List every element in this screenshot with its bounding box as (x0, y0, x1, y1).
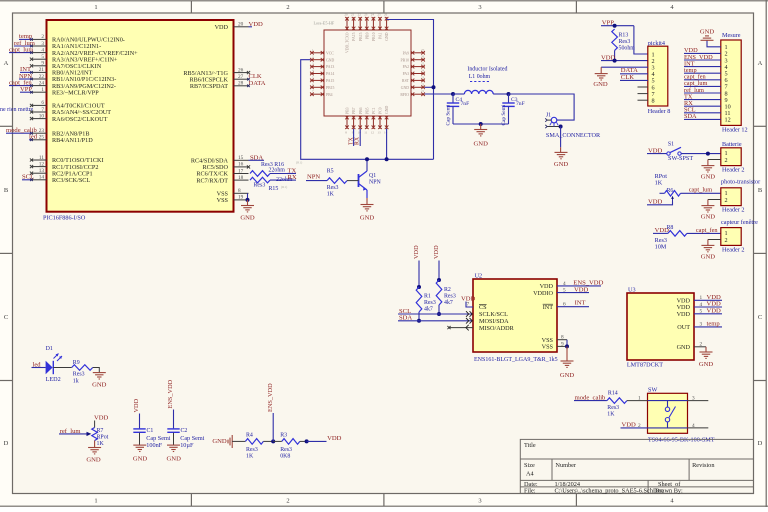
svg-text:R7: R7 (97, 428, 104, 434)
resistor R1 4k7 (416, 287, 422, 312)
svg-text:13: 13 (39, 168, 45, 174)
wire R13 to VDD rail (614, 50, 616, 60)
svg-text:LED2: LED2 (46, 376, 61, 383)
svg-text:23: 23 (364, 13, 368, 17)
svg-text:1: 1 (94, 4, 97, 11)
wire module top GND to right rail (387, 20, 434, 160)
svg-text:Cap Semi: Cap Semi (501, 104, 507, 125)
svg-text:R2: R2 (444, 287, 451, 293)
svg-text:PA15: PA15 (352, 32, 356, 40)
svg-text:Header 12: Header 12 (722, 127, 748, 134)
PIC pin 26 RB5/AN13/~T1G (234, 72, 249, 74)
svg-text:Drawn By:: Drawn By: (655, 488, 683, 495)
net stub TX from module bottom (353, 129, 355, 146)
wire / net label ref_lum to Mesure pin 8 (684, 92, 721, 94)
svg-text:11: 11 (364, 131, 367, 135)
svg-text:10M: 10M (655, 244, 667, 251)
PIC pin 20 VDD (234, 26, 249, 28)
svg-text:DATA: DATA (621, 67, 638, 74)
svg-text:PA2: PA2 (403, 65, 410, 69)
svg-text:22: 22 (358, 13, 362, 17)
svg-text:R14: R14 (608, 390, 618, 396)
ground above Mesure pin 1 (707, 41, 721, 47)
svg-text:SW-SPST: SW-SPST (668, 155, 693, 162)
svg-text:7: 7 (467, 302, 470, 308)
SW pin 3 stub (688, 400, 709, 402)
PIC pin 4 RA2/AN2/VREF-/CVREF/C2IN+ (32, 52, 47, 54)
svg-text:11: 11 (39, 155, 44, 161)
svg-text:C:\Users\..\schema_proto_SAE5-: C:\Users\..\schema_proto_SAE5-6.SchDoc (555, 488, 664, 495)
module bottom pin GND (386, 116, 388, 129)
svg-text:PB10: PB10 (372, 32, 376, 41)
svg-text:1K: 1K (607, 412, 615, 418)
PIC pin 3 RA1/AN1/C12IN1- (32, 45, 47, 47)
svg-text:VDD_TCXO: VDD_TCXO (346, 32, 350, 53)
junction (417, 285, 421, 289)
ground at C2 (167, 445, 180, 451)
svg-text:VDD: VDD (574, 287, 589, 294)
svg-text:RA6/OSC2/CLKOUT: RA6/OSC2/CLKOUT (52, 116, 108, 123)
resistor R5 1K (327, 178, 347, 184)
svg-text:GND: GND (560, 372, 575, 379)
svg-text:GND: GND (240, 215, 255, 222)
svg-text:ENS_VDD: ENS_VDD (167, 379, 174, 408)
svg-text:7nF: 7nF (516, 101, 525, 107)
wire cap commons (453, 123, 509, 125)
svg-text:4: 4 (563, 281, 566, 287)
PIC pin 14 RC3/SCK/SCL (32, 179, 47, 181)
svg-text:PIC16F886-I/SO: PIC16F886-I/SO (43, 215, 86, 222)
svg-text:RB7/ICSPDAT: RB7/ICSPDAT (190, 83, 228, 90)
wire / net label NPN (19, 78, 32, 80)
svg-text:27: 27 (238, 74, 244, 80)
svg-text:R1: R1 (424, 294, 431, 300)
svg-text:B: B (4, 187, 9, 194)
module left pin PA15 (310, 79, 324, 81)
wire R7 to ground (94, 441, 96, 448)
svg-text:24: 24 (371, 13, 375, 17)
svg-text:26: 26 (238, 67, 244, 73)
svg-text:Title: Title (524, 442, 536, 449)
svg-text:2: 2 (41, 34, 44, 40)
ground at R7 (88, 448, 101, 454)
svg-text:Size: Size (524, 462, 535, 469)
svg-text:4: 4 (692, 423, 695, 429)
svg-text:J1: J1 (546, 113, 551, 119)
svg-text:8: 8 (561, 335, 564, 341)
PIC pin 19 VSS (234, 199, 249, 201)
svg-text:10: 10 (39, 113, 45, 119)
svg-text:INT: INT (543, 304, 554, 311)
PIC pin 15 RC4/SDI/SDA (234, 159, 249, 161)
svg-text:RPot: RPot (97, 434, 109, 440)
pickit4 pin 8 (638, 99, 648, 101)
svg-text:26: 26 (421, 55, 425, 59)
module right pin PA9 (411, 52, 425, 54)
inductor L1 0ohm (464, 90, 493, 94)
svg-text:RX: RX (354, 136, 360, 145)
svg-text:27: 27 (421, 48, 425, 52)
svg-text:A: A (758, 60, 763, 67)
wire R14 to SW pin 1 (627, 400, 648, 402)
svg-text:(R1): (R1) (296, 161, 302, 165)
junction (613, 24, 617, 28)
svg-text:VCC: VCC (326, 51, 334, 55)
svg-text:Number: Number (555, 462, 577, 469)
svg-text:GND: GND (385, 106, 389, 114)
svg-text:8: 8 (238, 188, 241, 194)
module left pin PA14 (310, 73, 324, 75)
svg-text:GND: GND (699, 361, 714, 368)
svg-text:10µF: 10µF (180, 442, 194, 449)
svg-text:21: 21 (39, 67, 45, 73)
svg-text:9: 9 (41, 61, 44, 67)
PIC pin 27 RB6/ICSPCLK (234, 78, 249, 80)
svg-text:Inductor Isolated: Inductor Isolated (467, 67, 507, 73)
svg-text:(R1): (R1) (281, 185, 287, 189)
svg-text:13: 13 (377, 131, 381, 135)
wire Q1 emitter to ground (366, 198, 368, 205)
wire / net label capt_fen to Mesure pin 6 (684, 79, 721, 81)
wire R4 to node (263, 440, 273, 442)
svg-text:photo-transistor: photo-transistor (721, 179, 760, 186)
svg-text:6: 6 (563, 302, 566, 308)
module top pin PA1 (379, 17, 381, 30)
svg-text:ENS_VDD: ENS_VDD (573, 280, 603, 287)
svg-text:R3: R3 (280, 433, 287, 439)
svg-text:2: 2 (638, 423, 641, 429)
svg-text:ENS161-BLGT_LGA9_T&R_1k5: ENS161-BLGT_LGA9_T&R_1k5 (474, 357, 558, 363)
svg-text:capt_lum: capt_lum (689, 187, 713, 194)
svg-text:L1 0ohm: L1 0ohm (469, 74, 491, 80)
resistor R15 22ohm (250, 177, 270, 183)
svg-text:C1: C1 (147, 428, 154, 434)
svg-text:PB3: PB3 (346, 107, 350, 114)
svg-text:21: 21 (351, 13, 355, 17)
svg-text:VDD: VDD (215, 24, 229, 31)
svg-text:R13: R13 (619, 32, 629, 38)
ground at pickit4 (595, 74, 608, 80)
svg-text:SDA: SDA (684, 113, 697, 120)
svg-text:INT: INT (575, 299, 586, 306)
svg-text:GND: GND (133, 456, 148, 463)
wire header pin3 to ground (601, 66, 648, 68)
svg-text:Res3: Res3 (73, 372, 85, 378)
RF module U4 LoRa-E5 body (324, 30, 411, 116)
svg-text:A: A (4, 60, 9, 67)
module top pin GND (386, 17, 388, 30)
PIC pin 17 RC6/TX/CK (234, 173, 249, 175)
svg-text:VDD: VDD (94, 414, 109, 421)
svg-text:3: 3 (478, 4, 481, 11)
svg-text:GND: GND (86, 457, 101, 464)
svg-text:PB4: PB4 (326, 93, 333, 97)
net stub RX from module bottom (359, 129, 361, 146)
wire / net label mode_calib (6, 132, 32, 134)
resistor R16 22ohm (250, 171, 270, 177)
PIC pin 13 RC2/P1A/CCP1 (32, 172, 47, 174)
SW pin 4 stub (688, 427, 709, 429)
svg-text:C: C (4, 314, 8, 321)
wire / net label led (29, 139, 32, 141)
module left pin VCC (310, 52, 324, 54)
ground at J1 (555, 152, 568, 158)
svg-text:R4: R4 (246, 433, 253, 439)
wire photo-transistor pin 2 to ground (708, 199, 721, 201)
wire Batterie pin 2 to ground (708, 159, 721, 161)
wire R9 to ground (93, 368, 100, 373)
svg-text:B: B (758, 187, 763, 194)
svg-text:A4: A4 (526, 471, 535, 478)
svg-text:5: 5 (41, 54, 44, 60)
module right pin PA2 (411, 66, 425, 68)
wire collector of Q1 to rail (366, 159, 368, 171)
module right pin GND (411, 86, 425, 88)
svg-text:7nF: 7nF (461, 101, 470, 107)
svg-text:MISO/ADDR: MISO/ADDR (479, 325, 515, 332)
wire S1 to Batterie header (681, 153, 721, 155)
ground at C1 (133, 445, 146, 451)
PIC pin 23 RB2/AN8/P1B (32, 132, 47, 134)
svg-text:VPP: VPP (20, 86, 32, 93)
wire module left GND down to bottom rail (301, 60, 434, 160)
wire VPP to header pin 1 (634, 26, 648, 54)
U2 pin 6 INT (557, 306, 589, 308)
svg-text:RST: RST (402, 79, 410, 83)
svg-text:Cap Semi: Cap Semi (146, 435, 171, 442)
svg-text:21: 21 (421, 89, 425, 93)
svg-text:GND: GND (593, 81, 608, 88)
svg-text:18: 18 (238, 175, 244, 181)
svg-text:1: 1 (41, 87, 44, 93)
module top pin PA15 (353, 17, 355, 30)
module left pin GND (310, 59, 324, 61)
svg-text:20: 20 (238, 22, 244, 28)
svg-text:12: 12 (371, 131, 375, 135)
svg-text:24: 24 (421, 69, 425, 73)
svg-text:GND: GND (401, 86, 409, 90)
svg-text:VDD: VDD (413, 245, 420, 259)
pickit4 pin 6 (638, 86, 648, 88)
svg-text:Res3: Res3 (327, 185, 339, 191)
ground at R9 (93, 373, 106, 379)
potentiometer R7 RPot 1K (92, 428, 98, 441)
module bottom pin PB7 (353, 116, 355, 129)
svg-text:Res3: Res3 (254, 182, 266, 188)
PIC pin 28 RB7/ICSPDAT (234, 85, 249, 87)
svg-text:PA14: PA14 (326, 72, 334, 76)
svg-text:GND: GND (701, 214, 716, 221)
resistor R13 50ohm (612, 29, 618, 50)
U2 pins 8/9 VSS to ground (557, 339, 567, 341)
svg-text:LMT87DCKT: LMT87DCKT (627, 362, 663, 369)
svg-text:12: 12 (725, 117, 731, 124)
connector J1 SMA (551, 117, 557, 123)
svg-text:R9: R9 (73, 360, 80, 366)
svg-text:VDD: VDD (133, 398, 140, 412)
svg-text:capt_lum: capt_lum (9, 46, 34, 53)
svg-text:GND: GND (701, 254, 716, 261)
svg-text:19: 19 (238, 195, 244, 201)
ground at RF caps (474, 130, 487, 136)
svg-text:1K: 1K (327, 192, 335, 198)
svg-text:D: D (4, 440, 9, 447)
svg-text:SDA: SDA (250, 154, 263, 161)
svg-text:Res3: Res3 (607, 405, 619, 411)
svg-text:GND: GND (700, 29, 715, 36)
module right pin PA3 (411, 73, 425, 75)
wire / net label INT to Mesure pin 4 (684, 66, 721, 68)
svg-text:28: 28 (238, 81, 244, 87)
PIC pin 11 RC0/T1OSO/T1CKI (32, 159, 47, 161)
svg-text:GND: GND (701, 174, 716, 181)
svg-text:Res3: Res3 (444, 294, 456, 300)
ground at photo-transistor (701, 206, 714, 212)
module left pin PA13 (310, 66, 324, 68)
junction (613, 59, 617, 63)
svg-text:22: 22 (421, 82, 425, 86)
svg-text:12: 12 (39, 161, 45, 167)
module top pin PB15 (359, 17, 361, 30)
svg-text:2: 2 (286, 4, 289, 11)
svg-text:capt_fen: capt_fen (696, 227, 719, 234)
svg-text:Header 8: Header 8 (648, 108, 671, 115)
wire / net label ENS_VDD to Mesure pin 3 (684, 59, 721, 61)
PIC pin 1 RE3/~MCLR/VPP (32, 91, 47, 93)
ground at Batterie (701, 166, 714, 172)
wire U3 GND pin to ground (694, 346, 706, 348)
junction (559, 125, 563, 129)
svg-text:Cap Semi: Cap Semi (446, 104, 452, 125)
PIC pin 25 RB4/AN11/P1D (32, 139, 47, 141)
svg-text:2: 2 (725, 237, 728, 244)
wire / net label temp (19, 38, 32, 40)
svg-text:Header 2: Header 2 (722, 247, 745, 254)
PIC pin 5 RA3/AN3/VREF+/C1IN+ (32, 58, 47, 60)
PIC pin 18 RC7/RX/DT (234, 179, 249, 181)
svg-text:D: D (758, 440, 763, 447)
svg-text:Batterie: Batterie (722, 141, 742, 148)
svg-text:1: 1 (94, 498, 97, 505)
wire LED to R9 (53, 367, 71, 369)
resistor R4 1K (245, 439, 263, 445)
PIC pin 24 RB3/AN9/PGM/C12IN2- (32, 85, 47, 87)
svg-text:9: 9 (561, 341, 564, 347)
wire / net label SDA to Mesure pin 12 (684, 118, 721, 120)
svg-text:R15: R15 (269, 186, 279, 192)
svg-text:3: 3 (41, 41, 44, 47)
svg-text:17: 17 (238, 168, 244, 174)
svg-text:4: 4 (41, 47, 44, 53)
svg-text:D1: D1 (46, 346, 53, 352)
svg-text:Res3: Res3 (280, 447, 292, 453)
ground at Q1 (361, 205, 374, 211)
svg-text:ENS_VDD: ENS_VDD (267, 383, 274, 412)
svg-text:GND: GND (167, 456, 182, 463)
svg-text:25: 25 (421, 62, 425, 66)
svg-text:C: C (758, 314, 762, 321)
svg-text:16: 16 (238, 162, 244, 168)
svg-text:Header 2: Header 2 (722, 207, 745, 214)
svg-text:20: 20 (344, 13, 348, 17)
svg-text:1: 1 (638, 396, 641, 402)
svg-text:GND: GND (474, 141, 489, 148)
svg-text:PB5: PB5 (365, 107, 369, 114)
net label VDD at PIC pin 20 (249, 26, 253, 28)
svg-text:PB15: PB15 (359, 32, 363, 41)
svg-text:VDD: VDD (433, 245, 440, 259)
svg-text:PA13: PA13 (326, 65, 334, 69)
PIC pin 7 RA5/AN4/~SS/C2OUT (32, 111, 47, 113)
wire / net label SCL (22, 179, 32, 181)
svg-text:SW: SW (648, 386, 657, 393)
wire capt_lum to header (681, 192, 721, 194)
U2 pin 4 VDD to ENS_VDD (557, 285, 601, 287)
resistor R14 1K (607, 398, 627, 404)
wire capt_fen to header (687, 232, 721, 234)
PIC pin 10 RA6/OSC2/CLKOUT (32, 118, 47, 120)
wire / net label SCL to Mesure pin 11 (684, 112, 721, 114)
wire R3 to VDD (300, 440, 307, 442)
module bottom pin PB3 (346, 116, 348, 129)
junction (437, 312, 441, 316)
PIC pin 12 RC1/T1OSI/CCP2 (32, 166, 47, 168)
svg-text:22: 22 (39, 74, 45, 80)
wire module right GND pin to rail (425, 86, 434, 88)
svg-text:VSS: VSS (217, 197, 229, 204)
PIC pin 9 RA7/OSC1/CLKIN (32, 65, 47, 67)
wire / net label capt_fen (9, 85, 32, 87)
svg-text:capteur fenêtre: capteur fenêtre (721, 219, 758, 226)
svg-text:S1: S1 (668, 142, 674, 148)
svg-text:PB10: PB10 (401, 58, 410, 62)
svg-text:PB7: PB7 (352, 107, 356, 114)
module bottom pin PB6 (359, 116, 361, 129)
module top pin PB9 (366, 17, 368, 30)
svg-text:CS: CS (479, 304, 487, 311)
svg-text:1K: 1K (97, 441, 105, 447)
svg-text:File:: File: (524, 488, 536, 495)
capacitor C2 10uF (167, 429, 179, 432)
wire / net label temp to Mesure pin 5 (684, 72, 721, 74)
junction (305, 439, 309, 443)
wire / net label TX to Mesure pin 9 (684, 99, 721, 101)
SW internal contacts (648, 400, 688, 402)
svg-text:GND: GND (677, 344, 691, 351)
junction (706, 152, 710, 156)
wire L1 to C3 node (493, 93, 508, 95)
PIC pin 8 VSS (234, 192, 249, 194)
svg-text:GND: GND (212, 438, 227, 445)
junction (271, 439, 275, 443)
svg-text:23: 23 (421, 75, 425, 79)
svg-text:RE3/~MCLR/VPP: RE3/~MCLR/VPP (52, 89, 99, 96)
pickit4 pin 7 (638, 93, 648, 95)
svg-text:R8: R8 (667, 225, 674, 231)
junction (451, 92, 455, 96)
svg-text:GND: GND (326, 58, 334, 62)
svg-text:8: 8 (652, 98, 655, 105)
svg-text:PA3: PA3 (403, 72, 410, 76)
svg-text:led: led (29, 134, 38, 141)
wire / net label VPP (20, 91, 32, 93)
wire to SMA connector (509, 94, 575, 120)
svg-text:0K8: 0K8 (280, 454, 290, 460)
svg-text:VDD: VDD (327, 435, 342, 442)
svg-text:VSS: VSS (542, 344, 554, 351)
svg-text:3: 3 (692, 396, 695, 402)
PIC pin 2 RA0/AN0/ULPWU/C12IN0- (32, 38, 47, 40)
